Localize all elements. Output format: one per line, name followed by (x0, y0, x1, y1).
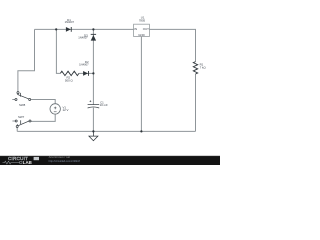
junction node E (7805 GND / ground rail) (140, 130, 142, 132)
wire SW8 left stub (12, 99, 15, 101)
svg-text:12 V: 12 V (63, 108, 69, 112)
capacitor C1 (88, 100, 100, 108)
svg-text:IN: IN (134, 27, 137, 31)
svg-text:http://circuitlab.com/c/3bbzf: http://circuitlab.com/c/3bbzf (49, 159, 81, 163)
watermark logo block (34, 157, 39, 160)
diode D1 (66, 27, 72, 32)
diode D3 (91, 34, 96, 41)
watermark bar (0, 156, 220, 165)
wire middle rail upper (92, 29, 94, 104)
wire SW8 to V1 (31, 100, 56, 104)
wire 7805 gnd pin (140, 37, 142, 132)
wire left rail (18, 29, 35, 91)
wire branch to R2 (56, 29, 60, 73)
junction node D (middle rail / ground rail) (92, 130, 94, 132)
svg-text:Anonimous / sal: Anonimous / sal (49, 155, 71, 159)
svg-text:500 Ω: 500 Ω (65, 79, 74, 83)
wire top horizontal (35, 28, 134, 30)
svg-text:LAB: LAB (23, 160, 32, 165)
wire middle rail lower (92, 108, 94, 132)
voltage source V1 (50, 104, 60, 114)
wire right rail lower (195, 74, 197, 131)
svg-text:1N4007: 1N4007 (79, 62, 89, 66)
wire R2 to D2 (79, 72, 94, 74)
resistor R2 (60, 71, 79, 75)
switch SW7 (15, 120, 31, 128)
svg-text:OUT: OUT (143, 27, 149, 31)
switch SW8 (15, 92, 31, 101)
svg-text:1N4007: 1N4007 (78, 36, 88, 40)
svg-text:1N4007: 1N4007 (65, 20, 75, 24)
diode D2 (83, 71, 89, 76)
wire bottom rail (17, 130, 195, 132)
junction node A (top wire / R2 branch) (55, 28, 57, 30)
svg-text:7805: 7805 (139, 19, 146, 23)
watermark logo wire doodle (3, 161, 20, 164)
ground (89, 131, 98, 140)
wire V1 minus to SW7 (31, 114, 55, 121)
wire out 7805 to right rail (150, 29, 196, 61)
svg-text:7 kΩ: 7 kΩ (200, 65, 207, 69)
junction node B (top wire / D3) (92, 28, 94, 30)
svg-text:GND: GND (138, 33, 144, 37)
svg-text:SW8: SW8 (19, 103, 26, 107)
voltage regulator U1 (7805) box (134, 24, 150, 36)
svg-text:SW7: SW7 (18, 115, 25, 119)
svg-text:10 mF: 10 mF (100, 103, 108, 107)
wire SW7 to bottom rail (16, 127, 18, 131)
junction node C (D2 / middle rail) (92, 72, 94, 74)
resistor R1 (193, 62, 197, 74)
wire SW7 left stub (12, 120, 15, 122)
